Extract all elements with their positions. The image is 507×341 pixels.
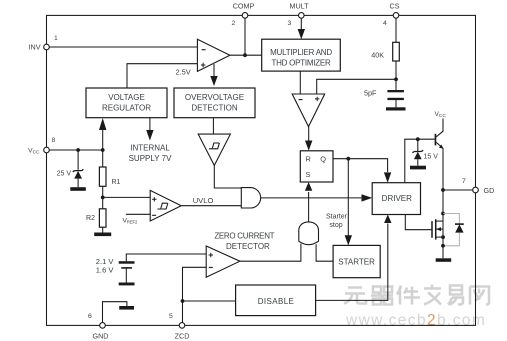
wire MULT pin into multiplier (arrow down) xyxy=(298,18,305,39)
易 xyxy=(448,286,463,305)
wire disable output to driver bottom (arrow up) xyxy=(316,215,392,301)
svg-text:INV: INV xyxy=(29,43,41,52)
svg-text:STARTER: STARTER xyxy=(338,258,375,267)
svg-text:REGULATOR: REGULATOR xyxy=(102,104,151,113)
wire zener branch xyxy=(77,150,79,170)
svg-text:stop: stop xyxy=(329,222,342,229)
ground bar under MOSFET source xyxy=(436,258,452,262)
block overvoltage detection xyxy=(174,88,255,118)
svg-text:DISABLE: DISABLE xyxy=(258,297,295,306)
watermark line 2: www.cecb2b.com xyxy=(345,312,486,329)
svg-text:5pF: 5pF xyxy=(364,89,377,98)
svg-text:www.cecb2b.com: www.cecb2b.com xyxy=(345,312,486,329)
comparator UVLO xyxy=(150,190,181,221)
transistor Q1 (NPN follower) xyxy=(435,119,444,191)
svg-text:ZCD: ZCD xyxy=(175,331,190,340)
ground bar internal GND xyxy=(119,306,134,310)
svg-text:INTERNAL: INTERNAL xyxy=(130,144,170,153)
capacitor 5pF xyxy=(387,79,404,107)
schmitt trigger buffer xyxy=(198,134,230,165)
resistor R1 xyxy=(99,150,106,197)
pin 5 ZCD xyxy=(169,313,189,340)
ground bar under R2 xyxy=(94,233,111,237)
svg-text:UVLO: UVLO xyxy=(193,196,214,205)
body diode D1 xyxy=(455,224,464,233)
svg-text:GND: GND xyxy=(93,331,109,340)
svg-text:MULTIPLIER AND: MULTIPLIER AND xyxy=(270,48,332,57)
wire schmitt output to AND gate top input xyxy=(214,165,241,188)
svg-text:3: 3 xyxy=(288,20,292,27)
zener diode 15V xyxy=(413,139,424,166)
wire ZCD comparator output to OR gate left input xyxy=(240,244,301,262)
node junction Vcc/zener xyxy=(76,148,80,152)
wire R1 top / arrow up into voltage regulator xyxy=(99,118,106,150)
pin 6 GND xyxy=(88,313,108,340)
svg-text:40K: 40K xyxy=(371,51,384,60)
svg-text:DRIVER: DRIVER xyxy=(382,194,412,203)
svg-text:4: 4 xyxy=(383,20,387,27)
wire starter output to OR gate right input xyxy=(316,244,333,261)
node junction R1/R2/UVLO xyxy=(101,196,105,200)
svg-text:THD OPTIMIZER: THD OPTIMIZER xyxy=(272,59,331,68)
wire CS network to PWM comparator + input xyxy=(317,79,396,94)
label ZERO CURRENT DETECTOR xyxy=(214,231,274,251)
wire CS pin through 40K xyxy=(395,18,397,42)
block driver xyxy=(372,183,420,215)
comparator zero current detector xyxy=(206,246,240,277)
node junction emitter/GD xyxy=(441,188,445,192)
wire driver to MOSFET gate xyxy=(405,215,432,230)
svg-text:2.5V: 2.5V xyxy=(176,67,191,76)
pin 2 COMP xyxy=(232,2,255,28)
器 xyxy=(371,287,393,305)
wire error amp output to multiplier xyxy=(230,54,262,56)
wire VREF2 to UVLO - input xyxy=(126,213,150,215)
svg-text:R2: R2 xyxy=(86,215,95,222)
svg-text:7: 7 xyxy=(462,178,466,185)
svg-text:S: S xyxy=(306,170,311,179)
ground bar under 15V zener xyxy=(410,166,426,170)
svg-text:8: 8 xyxy=(52,137,56,144)
svg-text:5: 5 xyxy=(169,313,173,320)
battery reference 2.1V/1.6V xyxy=(119,261,135,285)
resistor R2 xyxy=(99,197,106,232)
node junction COMP/output xyxy=(243,53,247,57)
node junction Q/starter xyxy=(346,157,350,161)
watermark line 1: 元器件交易网 xyxy=(344,285,489,305)
svg-text:1: 1 xyxy=(54,35,58,42)
ground bar under 25V zener xyxy=(70,187,86,191)
label 2.1 V / 1.6 V xyxy=(96,257,115,275)
wire Q output to driver (arrow down into driver top) xyxy=(333,159,391,183)
wire emitter node down to MOSFET drain xyxy=(442,190,444,214)
交 xyxy=(424,285,441,305)
svg-text:2.1 V: 2.1 V xyxy=(96,257,115,266)
wire node to disable box xyxy=(183,300,236,302)
pin 4 CS xyxy=(383,2,400,28)
wire Q node down to starter (arrow down) xyxy=(345,159,352,246)
wire OR gate output up to flip-flop S (arrow up) xyxy=(305,182,312,222)
svg-text:MULT: MULT xyxy=(289,2,309,11)
node junction bias/zener xyxy=(416,137,420,141)
wire internal supply arrow down xyxy=(146,118,153,141)
件 xyxy=(397,286,420,305)
node junction Vcc/R1 xyxy=(101,148,105,152)
OR gate U3 xyxy=(299,222,319,245)
svg-text:Q: Q xyxy=(320,154,326,163)
block voltage regulator xyxy=(86,88,167,118)
svg-text:1.6 V: 1.6 V xyxy=(96,266,115,275)
svg-text:GD: GD xyxy=(484,186,495,195)
元 xyxy=(344,288,366,304)
pin 8 Vcc xyxy=(28,137,55,156)
AND gate U1 xyxy=(241,188,260,208)
zener diode 25V xyxy=(73,169,84,187)
resistor 40K xyxy=(393,42,400,79)
svg-text:DETECTOR: DETECTOR xyxy=(226,242,270,251)
wire AND gate output to driver (arrow right) xyxy=(261,194,373,201)
pin 3 MULT xyxy=(288,2,310,28)
svg-text:ZERO CURRENT: ZERO CURRENT xyxy=(214,231,274,240)
svg-text:DETECTION: DETECTION xyxy=(191,104,237,113)
svg-text:R: R xyxy=(306,154,311,163)
wire Vcc pin to R1 branch xyxy=(49,149,103,151)
pin 7 GD xyxy=(462,178,494,195)
IC boundary frame xyxy=(47,15,476,325)
svg-text:COMP: COMP xyxy=(233,2,255,11)
网 xyxy=(470,287,489,305)
block starter xyxy=(333,245,380,277)
svg-text:6: 6 xyxy=(88,313,92,320)
wire reference battery to ZCD + input xyxy=(126,254,206,261)
node junction source/body diode xyxy=(441,244,445,248)
svg-text:2: 2 xyxy=(232,20,236,27)
wire COMP pin down to output node xyxy=(244,18,246,55)
node junction ZCD/disable xyxy=(181,299,185,303)
wire 2.5V reference from regulator to error amp + input xyxy=(127,64,197,88)
op-amp error amplifier xyxy=(197,39,230,71)
block disable xyxy=(236,285,316,316)
wire R1/R2 divider to UVLO + input xyxy=(103,196,151,198)
wire ZCD pin to - input and disable xyxy=(183,267,207,322)
wire PWM comparator output to flip-flop R (arrow down) xyxy=(305,127,312,151)
svg-text:CS: CS xyxy=(390,2,400,11)
svg-text:Starter: Starter xyxy=(326,213,348,220)
svg-text:R1: R1 xyxy=(112,179,121,186)
wire INV pin to error amp inverting input xyxy=(49,46,197,48)
node junction drain/body diode xyxy=(441,212,445,216)
label INTERNAL SUPPLY 7V xyxy=(129,144,173,163)
svg-text:VOLTAGE: VOLTAGE xyxy=(108,93,145,102)
wire emitter node to GD pin xyxy=(443,189,473,191)
label Starter stop xyxy=(326,213,348,229)
node junction source stub xyxy=(441,235,445,239)
wire multiplier output to PWM comparator - input xyxy=(299,71,301,94)
svg-text:15 V: 15 V xyxy=(424,153,439,160)
wire driver top to bias rail xyxy=(405,139,435,183)
svg-text:OVERVOLTAGE: OVERVOLTAGE xyxy=(185,93,244,102)
flip-flop U2 (RS latch) xyxy=(300,151,333,182)
block multiplier and THD optimizer xyxy=(262,39,341,71)
comparator PWM (current sense) xyxy=(292,94,325,127)
wire UVLO output to AND gate xyxy=(181,205,241,207)
wire error amp to overvoltage detection (arrow down) xyxy=(210,64,217,86)
svg-text:25 V: 25 V xyxy=(57,171,72,178)
svg-text:SUPPLY 7V: SUPPLY 7V xyxy=(129,154,173,163)
pin 1 INV xyxy=(29,35,58,52)
ground bar under 5pF xyxy=(386,107,406,110)
wire OVD to schmitt trigger xyxy=(212,118,214,134)
MOSFET M1 xyxy=(432,214,443,259)
body diode loop wire (gray) xyxy=(443,214,459,246)
node junction CS/cap xyxy=(394,77,398,81)
wire GND pin to internal ground xyxy=(103,302,127,323)
